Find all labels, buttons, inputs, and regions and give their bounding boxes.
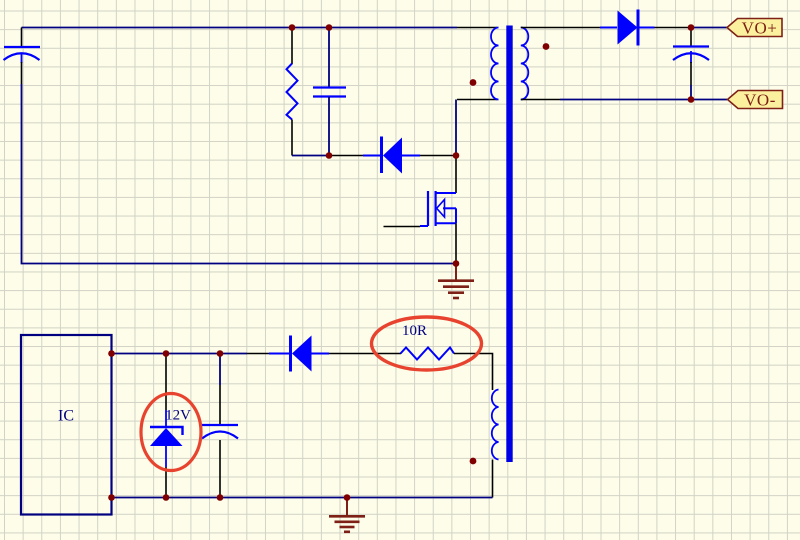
transformer T1 secondary bottom pin [521, 99, 560, 101]
capacitor C3 [673, 47, 709, 64]
wire secondary bottom rail to port VO- [560, 99, 727, 101]
capacitor C2 top lead [328, 28, 330, 88]
wire to diode D1 [329, 155, 363, 157]
transformer T1 primary top pin [457, 27, 497, 29]
diode D3 (aux rectifier, cathode left) [269, 336, 329, 372]
annotation ellipse around 10R [372, 317, 482, 370]
wire D1 to drain node [420, 155, 456, 157]
svg-text:VO+: VO+ [742, 19, 778, 38]
wire IC top rail [112, 353, 248, 355]
wire primary bottom to drain node [455, 100, 457, 156]
node junction dots [108, 24, 694, 501]
resistor R1 bottom pin [291, 120, 293, 156]
capacitor C4 top pin [219, 385, 221, 425]
ground G1 [438, 264, 474, 299]
zener diode D4 (12V) [150, 410, 183, 467]
svg-text:IC: IC [58, 408, 74, 425]
svg-text:VO-: VO- [744, 91, 776, 110]
zener diode D4 bottom wire [165, 467, 167, 498]
transformer T1 primary winding [491, 28, 499, 100]
wire IC bottom rail [112, 497, 493, 499]
transformer T1 aux winding [492, 390, 499, 460]
port VO+ [727, 19, 782, 38]
diode D2 (output rectifier) [600, 10, 655, 46]
diode D1 (clamp, cathode left) [363, 137, 420, 174]
wire left loop to MOSFET source node [22, 84, 457, 264]
capacitor C1 bottom pin [21, 62, 23, 84]
transformer T1 secondary winding [521, 28, 529, 100]
resistor R1 [287, 64, 298, 120]
wire C3 to VO- rail [690, 85, 692, 100]
svg-text:10R: 10R [402, 323, 427, 339]
transformer T1 core [506, 26, 512, 463]
transformer T1 primary bottom pin [457, 99, 497, 101]
transformer T1 primary polarity dot [470, 79, 477, 86]
transformer T1 secondary top pin [521, 27, 603, 29]
transformer T1 aux polarity dot [470, 458, 477, 465]
wire output node to port VO+ [691, 27, 727, 29]
wire D3 to resistor R2 [329, 353, 401, 355]
zener diode D4 top wire [165, 354, 167, 411]
resistor R1 top pin [291, 28, 293, 65]
transistor Q1 gate lead [384, 226, 421, 228]
capacitor C3 top pin [690, 29, 692, 46]
wire snubber bottom [292, 155, 329, 157]
transistor Q1 drain wire [455, 156, 457, 194]
svg-text:12V: 12V [165, 408, 191, 424]
wire R2 to aux winding [454, 354, 493, 391]
ground G2 [329, 498, 365, 532]
transformer T1 aux bottom pin [492, 460, 494, 498]
capacitor C2 [313, 88, 346, 97]
op-amp U1 IC box [21, 335, 112, 515]
capacitor C1 top pin [21, 28, 23, 48]
transistor Q1 (N-MOSFET) [420, 191, 456, 226]
annotation ellipse around zener [141, 394, 201, 471]
port VO- [728, 91, 783, 110]
capacitor C4 bottom pin [219, 440, 221, 498]
capacitor C4 [202, 425, 238, 439]
capacitor C2 bottom lead [328, 97, 330, 156]
capacitor C3 bottom pin [690, 62, 692, 85]
capacitor C4 top wire [219, 354, 221, 386]
transistor Q1 source wire [455, 223, 457, 263]
wire top rail net VIN [22, 27, 458, 29]
capacitor C1 [4, 47, 41, 63]
transformer T1 secondary polarity dot [543, 43, 550, 50]
resistor R2 (10R) [401, 348, 455, 360]
wire D2 to output node [655, 27, 692, 29]
wire to diode D3 [247, 353, 269, 355]
